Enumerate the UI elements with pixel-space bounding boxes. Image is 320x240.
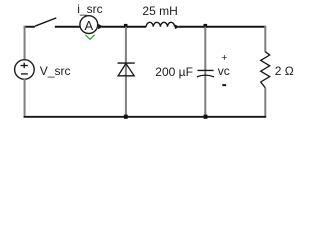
svg-text:25 mH: 25 mH (142, 4, 177, 18)
current direction arrow at inductor output (175, 25, 180, 30)
capacitor C 200 µF (polarized) (197, 70, 214, 77)
voltage source V_src (15, 60, 35, 80)
resistor branch lower wire (264, 88, 266, 118)
label vc (218, 64, 230, 78)
inductor L 25 mH (146, 22, 174, 26)
wire ammeter to node 1 and to inductor (102, 26, 146, 28)
capacitor polarity - label (222, 84, 226, 86)
label V_src (40, 64, 71, 78)
junction node 1 (top of diode branch) (124, 24, 128, 28)
capacitor polarity + label (221, 52, 227, 64)
svg-text:200 µF: 200 µF (155, 65, 193, 79)
junction node 4 (bottom of capacitor branch) (204, 115, 208, 119)
label 25 mH (142, 4, 177, 18)
resistor branch upper wire (264, 26, 266, 52)
svg-text:V_src: V_src (40, 64, 71, 78)
diode branch upper wire (125, 27, 127, 117)
junction node 2 (top of capacitor branch) (204, 24, 208, 28)
wire inductor to node 2 and top-right corner (179, 26, 267, 28)
left branch lower wire (24, 79, 26, 118)
ammeter probe marker (green chevron) (85, 35, 94, 39)
diode D (118, 63, 135, 76)
wire top-left segment (24, 26, 35, 28)
svg-text:2 Ω: 2 Ω (275, 64, 294, 78)
svg-text:vc: vc (218, 64, 230, 78)
junction node 3 (bottom of diode branch) (124, 115, 128, 119)
current direction arrow at ammeter output (98, 24, 103, 29)
label 200 µF (155, 65, 193, 79)
svg-text:A: A (84, 18, 93, 33)
svg-text:i_src: i_src (77, 2, 102, 16)
capacitor branch upper wire (204, 27, 206, 117)
label 2 Ω (275, 64, 294, 78)
left branch upper wire (24, 26, 26, 60)
ammeter A (80, 16, 98, 34)
bottom wire (24, 116, 267, 118)
resistor R 2 Ω (261, 52, 270, 88)
wire switch contact to ammeter (55, 26, 80, 28)
svg-text:+: + (221, 52, 227, 64)
label i_src (77, 2, 102, 16)
switch (open) (35, 18, 56, 26)
